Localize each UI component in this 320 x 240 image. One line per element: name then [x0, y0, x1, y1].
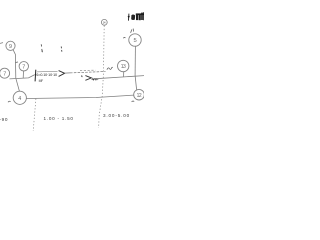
svg-text:5: 5: [134, 38, 137, 44]
svg-text:9: 9: [9, 44, 12, 50]
dark stamp top-right: arrow: [128, 14, 130, 21]
small dashed arrow upper-middle: [40, 44, 42, 46]
left dashed vertical line: [33, 99, 36, 131]
annotation leader line: [65, 72, 70, 74]
main bus left segment: [10, 75, 35, 79]
label tick left of node 5: [123, 36, 125, 39]
label tick left of node 9: [0, 42, 3, 45]
dashed vertical line from node 14: [99, 26, 105, 128]
annotation arrow chevron: [59, 71, 65, 77]
scribble arrow and rrr below bus: [85, 76, 91, 81]
stem node 5 down to bus: [134, 46, 136, 76]
main bus right segment: [96, 76, 144, 79]
svg-text:-90: -90: [0, 117, 8, 122]
svg-text:3.00-5.00: 3.00-5.00: [103, 113, 130, 118]
node 7 left (cut by edge): [0, 68, 10, 78]
wire node9 to bus junction: [13, 50, 16, 79]
svg-text:1.00 - 1.50: 1.00 - 1.50: [44, 116, 74, 121]
stem bus down to node 4: [16, 79, 19, 91]
motor node 14: [101, 19, 107, 25]
dashes above node 5: [131, 29, 132, 32]
stem node 7 to bus: [22, 71, 24, 78]
node 4: [13, 91, 26, 104]
node 7 upper: [19, 62, 28, 71]
stem node 13 down to bus: [123, 72, 125, 77]
svg-text:7: 7: [3, 71, 6, 77]
svg-text:7: 7: [22, 64, 25, 70]
label tick below-left of node 12: [132, 100, 135, 103]
label tick left of node 7: [15, 61, 18, 64]
node 12: [134, 89, 145, 100]
squiggle above right bus: [107, 67, 113, 69]
dashed overline above leader: [80, 69, 96, 71]
inline annotation: vertical bar: [34, 70, 37, 82]
label tick left of node 4: [8, 100, 11, 103]
node 13: [118, 60, 129, 71]
node 5: [129, 34, 141, 46]
stem bus down to node 12: [135, 76, 136, 89]
dark stamp top-right: bold marks: [131, 15, 135, 20]
node 9: [6, 41, 15, 50]
small dashed mark upper-middle right: [60, 47, 62, 49]
svg-text:4: 4: [18, 96, 21, 102]
svg-text:12: 12: [137, 93, 142, 99]
svg-text:13: 13: [121, 64, 126, 70]
lower wire node4 to node12: [26, 95, 133, 98]
svg-text:MF: MF: [39, 79, 44, 83]
svg-text:6=0.10·10·10: 6=0.10·10·10: [36, 73, 57, 77]
